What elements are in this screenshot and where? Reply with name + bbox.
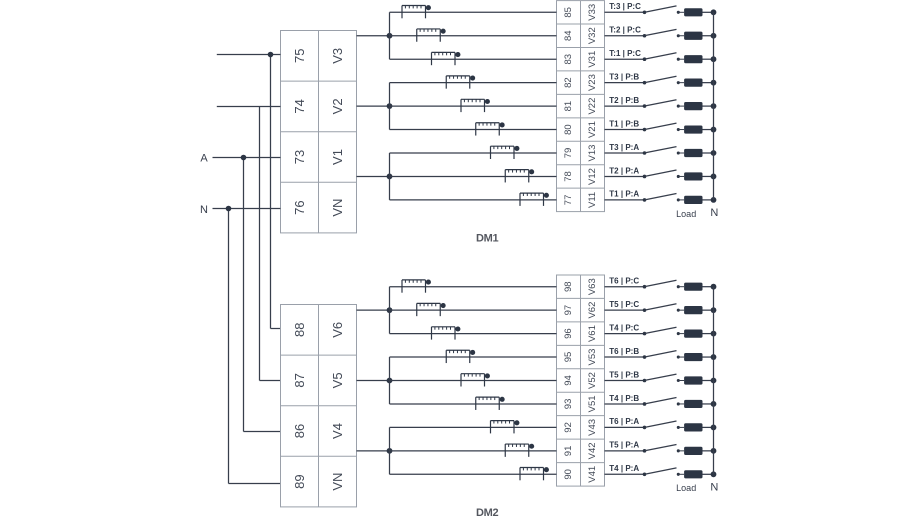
junction on N bus row 95 [711,354,717,360]
switch S10 [643,280,684,288]
wire from terminal 82 to switch [605,82,645,84]
wire V2 from TB to node [357,105,390,107]
svg-text:V2: V2 [330,98,345,114]
wire from terminal 80 to switch [605,129,645,131]
fuse F16 [491,420,520,433]
wire feed 74 to 87 [260,107,281,381]
svg-text:N: N [710,207,718,219]
wire load LD10 to N bus [703,286,714,288]
wire from terminal 81 to switch [605,105,645,107]
svg-text:V11: V11 [587,192,598,208]
wire load LD11 to N bus [703,309,714,311]
load LD10 [684,283,702,291]
load LD1 [684,8,702,16]
wire feed 75 to 88 [271,55,281,329]
wire into terminal 75 [217,54,281,56]
wire branch to terminal 94 [390,380,557,382]
svg-text:83: 83 [563,54,574,65]
svg-text:T1 | P:B: T1 | P:B [609,119,639,128]
svg-text:90: 90 [563,469,574,480]
junction on N bus row 83 [711,56,717,62]
wire branch to terminal 95 [390,356,557,358]
fuse F14 [461,373,490,386]
junction on N bus row 81 [711,103,717,109]
wire branch riser V3 [389,12,391,59]
svg-text:76: 76 [292,200,307,214]
wire branch to terminal 82 [390,82,557,84]
svg-text:T:1 | P:C: T:1 | P:C [609,49,641,58]
svg-text:V41: V41 [587,466,598,483]
switch S14 [643,374,684,382]
wire branch to terminal 79 [390,152,557,154]
switch S18 [643,468,684,476]
wire branch riser V6 [389,287,391,334]
svg-text:T6 | P:C: T6 | P:C [609,277,639,286]
wire load LD15 to N bus [703,403,714,405]
wire from terminal 85 to switch [605,11,645,13]
wire load LD16 to N bus [703,426,714,428]
svg-text:T4 | P:C: T4 | P:C [609,323,639,332]
switch S13 [643,351,684,359]
wire from terminal 84 to switch [605,35,645,37]
junction on wire at x=270.0 [268,52,274,58]
svg-text:V62: V62 [587,302,598,319]
svg-text:81: 81 [563,101,574,112]
svg-text:Load: Load [676,483,696,493]
fuse F9 [520,193,549,206]
svg-text:87: 87 [292,373,307,387]
wire load LD12 to N bus [703,333,714,335]
N bus (DM1) [713,12,715,200]
fuse F10 [402,280,431,293]
svg-text:80: 80 [563,124,574,135]
wire branch to terminal 96 [390,333,557,335]
fuse F13 [446,350,475,363]
wire branch to terminal 93 [390,403,557,405]
switch S17 [643,444,684,452]
wire from terminal 98 to switch [605,286,645,288]
switch S4 [643,76,684,84]
wire from terminal 90 to switch [605,473,645,475]
wire branch to terminal 80 [390,129,557,131]
wire branch to terminal 97 [390,309,557,311]
svg-text:91: 91 [563,446,574,457]
svg-text:73: 73 [292,150,307,164]
fuse F6 [476,122,505,135]
load LD14 [684,376,702,384]
svg-text:88: 88 [292,323,307,337]
switch S7 [643,147,684,155]
svg-text:T2 | P:A: T2 | P:A [609,166,639,175]
wire from terminal 77 to switch [605,199,645,201]
fuse F12 [432,326,461,339]
svg-text:T2 | P:B: T2 | P:B [609,96,639,105]
svg-text:T5 | P:C: T5 | P:C [609,300,639,309]
wire branch riser V5 [389,357,391,404]
wire load LD1 to N bus [703,11,714,13]
wire load LD2 to N bus [703,35,714,37]
wire from terminal 91 to switch [605,450,645,452]
wire branch to terminal 92 [390,426,557,428]
svg-text:V31: V31 [587,51,598,68]
junction on wire at x=243.0 [241,155,247,161]
wire load LD3 to N bus [703,58,714,60]
load LD5 [684,102,702,110]
svg-text:V1: V1 [330,149,345,165]
wire branch to terminal 91 [390,450,557,452]
load LD13 [684,353,702,361]
wire V5 from TB to node [357,380,390,382]
svg-text:V51: V51 [587,395,598,412]
svg-text:V4: V4 [330,423,345,439]
svg-text:86: 86 [292,424,307,438]
wire load LD14 to N bus [703,380,714,382]
wire V1 from TB to node [357,175,390,177]
svg-text:T6 | P:B: T6 | P:B [609,347,639,356]
svg-text:N: N [200,204,208,216]
wire branch to terminal 84 [390,35,557,37]
junction on N bus row 84 [711,33,717,39]
fuse F1 [402,5,431,18]
wire branch riser V4 [389,427,391,474]
svg-text:85: 85 [563,7,574,18]
fuse F7 [491,146,520,159]
junction node V5 [387,378,393,384]
junction node V3 [387,33,393,39]
svg-text:V23: V23 [587,74,598,91]
svg-text:T4 | P:B: T4 | P:B [609,394,639,403]
junction on N bus row 93 [711,401,717,407]
junction on N bus row 94 [711,378,717,384]
svg-text:DM1: DM1 [476,233,499,245]
wire branch to terminal 90 [390,473,557,475]
wire feed 76 to 89 [229,209,281,484]
junction node V4 [387,448,393,454]
svg-text:T:2 | P:C: T:2 | P:C [609,26,641,35]
svg-text:DM2: DM2 [476,507,499,519]
svg-text:92: 92 [563,422,574,433]
wire branch riser V2 [389,83,391,130]
load LD8 [684,172,702,180]
switch S12 [643,327,684,335]
svg-text:74: 74 [292,99,307,113]
wire from terminal 95 to switch [605,356,645,358]
svg-text:T3 | P:B: T3 | P:B [609,72,639,81]
N bus (DM2) [713,287,715,475]
junction on N bus row 96 [711,331,717,337]
svg-text:V52: V52 [587,372,598,389]
fuse F11 [417,303,446,316]
svg-text:V22: V22 [587,98,598,115]
load LD4 [684,79,702,87]
wire load LD6 to N bus [703,129,714,131]
wire from terminal 79 to switch [605,152,645,154]
fuse F15 [476,397,505,410]
terminal block TB2 (DM1 metering terminals) [557,1,605,212]
fuse F8 [505,169,534,182]
wire from terminal 97 to switch [605,309,645,311]
svg-text:75: 75 [292,49,307,63]
svg-text:93: 93 [563,399,574,410]
switch S5 [643,100,684,108]
svg-text:VN: VN [330,199,345,217]
junction on N bus row 90 [711,471,717,477]
junction node V1 [387,174,393,180]
svg-text:V61: V61 [587,325,598,342]
svg-text:V32: V32 [587,27,598,44]
fuse F4 [446,76,475,89]
junction on N bus row 82 [711,80,717,86]
junction on N bus row 98 [711,284,717,290]
svg-text:V5: V5 [330,372,345,388]
fuse F2 [417,29,446,42]
junction on N bus row 97 [711,307,717,313]
junction node V2 [387,103,393,109]
junction on N bus row 78 [711,174,717,180]
junction on N bus row 91 [711,448,717,454]
wire from terminal 93 to switch [605,403,645,405]
svg-text:A: A [200,153,208,165]
svg-text:V6: V6 [330,322,345,338]
junction on N bus row 77 [711,197,717,203]
wire from terminal 96 to switch [605,333,645,335]
switch S8 [643,170,684,178]
wire branch riser V1 [389,153,391,200]
load LD12 [684,330,702,338]
load LD11 [684,306,702,314]
svg-text:95: 95 [563,352,574,363]
svg-text:V33: V33 [587,4,598,21]
wire feed 73 to 86 [244,158,281,432]
svg-text:T4 | P:A: T4 | P:A [609,464,639,473]
load LD17 [684,447,702,455]
wire branch to terminal 83 [390,58,557,60]
wire load LD5 to N bus [703,105,714,107]
load LD16 [684,423,702,431]
wire V6 from TB to node [357,309,390,311]
wire load LD9 to N bus [703,199,714,201]
svg-text:V13: V13 [587,145,598,162]
svg-text:T5 | P:B: T5 | P:B [609,370,639,379]
wire load LD4 to N bus [703,82,714,84]
junction on N bus row 92 [711,425,717,431]
junction on N bus row 85 [711,9,717,15]
wire from terminal 94 to switch [605,380,645,382]
svg-text:V3: V3 [330,48,345,64]
wire V4 from TB to node [357,450,390,452]
wire load LD8 to N bus [703,175,714,177]
svg-text:V21: V21 [587,121,598,138]
wire load LD13 to N bus [703,356,714,358]
svg-text:T6 | P:A: T6 | P:A [609,417,639,426]
switch S3 [643,53,684,61]
switch S9 [643,194,684,202]
wire branch to terminal 78 [390,175,557,177]
switch S11 [643,304,684,312]
svg-text:VN: VN [330,473,345,491]
terminal block TB4 (DM2 metering terminals) [557,275,605,486]
wire from terminal 78 to switch [605,175,645,177]
wire branch to terminal 85 [390,11,557,13]
wire branch to terminal 98 [390,286,557,288]
svg-text:T1 | P:A: T1 | P:A [609,190,639,199]
wire branch to terminal 77 [390,199,557,201]
svg-text:V53: V53 [587,349,598,366]
svg-text:Load: Load [676,209,696,219]
load LD15 [684,400,702,408]
fuse F3 [432,52,461,65]
terminal block TB1 (DM1 voltage input strip) [281,31,357,233]
junction on N bus row 80 [711,127,717,133]
svg-text:T3 | P:A: T3 | P:A [609,143,639,152]
svg-text:V42: V42 [587,442,598,459]
wire V3 from TB to node [357,35,390,37]
svg-text:79: 79 [563,148,574,159]
wire into terminal 73 [213,157,281,159]
svg-text:V43: V43 [587,419,598,436]
load LD18 [684,470,702,478]
wire load LD17 to N bus [703,450,714,452]
wire branch to terminal 81 [390,105,557,107]
svg-text:T:3 | P:C: T:3 | P:C [609,2,641,11]
svg-text:94: 94 [563,375,574,386]
svg-text:N: N [710,482,718,494]
load LD6 [684,125,702,133]
wire load LD7 to N bus [703,152,714,154]
terminal block TB3 (DM2 voltage input strip) [281,305,357,507]
fuse F17 [505,444,534,457]
svg-text:82: 82 [563,77,574,88]
wire load LD18 to N bus [703,473,714,475]
svg-text:97: 97 [563,305,574,316]
wire from terminal 83 to switch [605,58,645,60]
junction on N bus row 79 [711,150,717,156]
svg-text:89: 89 [292,474,307,488]
switch S1 [643,6,684,14]
svg-text:77: 77 [563,195,574,206]
fuse F5 [461,99,490,112]
wire into terminal 76 [213,208,281,210]
load LD9 [684,196,702,204]
load LD7 [684,149,702,157]
wire from terminal 92 to switch [605,426,645,428]
svg-text:V63: V63 [587,278,598,295]
svg-text:V12: V12 [587,168,598,185]
svg-text:96: 96 [563,328,574,339]
svg-text:78: 78 [563,171,574,182]
load LD2 [684,32,702,40]
switch S16 [643,421,684,429]
svg-text:84: 84 [563,30,574,41]
junction node V6 [387,307,393,313]
load LD3 [684,55,702,63]
switch S6 [643,123,684,131]
svg-text:98: 98 [563,281,574,292]
switch S15 [643,398,684,406]
junction on wire at x=228.0 [226,206,232,212]
wire into terminal 74 [217,106,281,108]
fuse F18 [520,467,549,480]
switch S2 [643,29,684,37]
svg-text:T5 | P:A: T5 | P:A [609,441,639,450]
